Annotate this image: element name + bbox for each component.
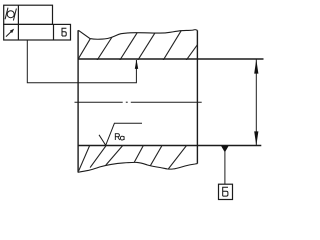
cylindricity symbol right slant (13, 9, 16, 21)
tolerance frame row1 (cylindricity) outer box (4, 5, 53, 24)
hatching upper band (78, 30, 198, 61)
datum letter in frame (62, 28, 66, 36)
break line bottom (wavy) (78, 162, 198, 172)
datum letter B (223, 187, 228, 196)
runout symbol arrowhead (10, 29, 14, 33)
cylindricity symbol left slant (5, 8, 8, 20)
dimension arrowhead up (254, 59, 258, 73)
leader arrowhead (135, 59, 138, 69)
tolerance frame row2 divider 2 (53, 24, 55, 40)
cylindricity symbol circle (7, 11, 14, 18)
dimension arrowhead down (254, 131, 258, 145)
surface roughness text Ra (115, 134, 119, 140)
leader from frame (27, 40, 136, 83)
tolerance frame row2 divider 1 (17, 24, 19, 40)
part right end face (196, 30, 198, 163)
break line top (wavy) (78, 30, 197, 40)
bore upper surface + extension line (78, 58, 263, 60)
hatching lower band (79, 145, 188, 171)
surface roughness symbol check (99, 123, 142, 145)
axis centerline dot (126, 101, 128, 103)
datum box (219, 184, 233, 199)
bore lower surface + extension line (78, 145, 261, 147)
axis centerline dash (75, 101, 123, 103)
axis centerline dash (131, 101, 202, 103)
part left end face (77, 30, 79, 172)
tolerance frame row1 divider (17, 5, 19, 24)
datum triangle (221, 146, 229, 153)
runout symbol arrow shaft (6, 31, 12, 37)
surface roughness text a (120, 136, 124, 140)
datum leader (224, 152, 226, 185)
dimension line (255, 60, 257, 146)
tolerance frame row2 (runout, datum B) outer box (4, 24, 71, 40)
